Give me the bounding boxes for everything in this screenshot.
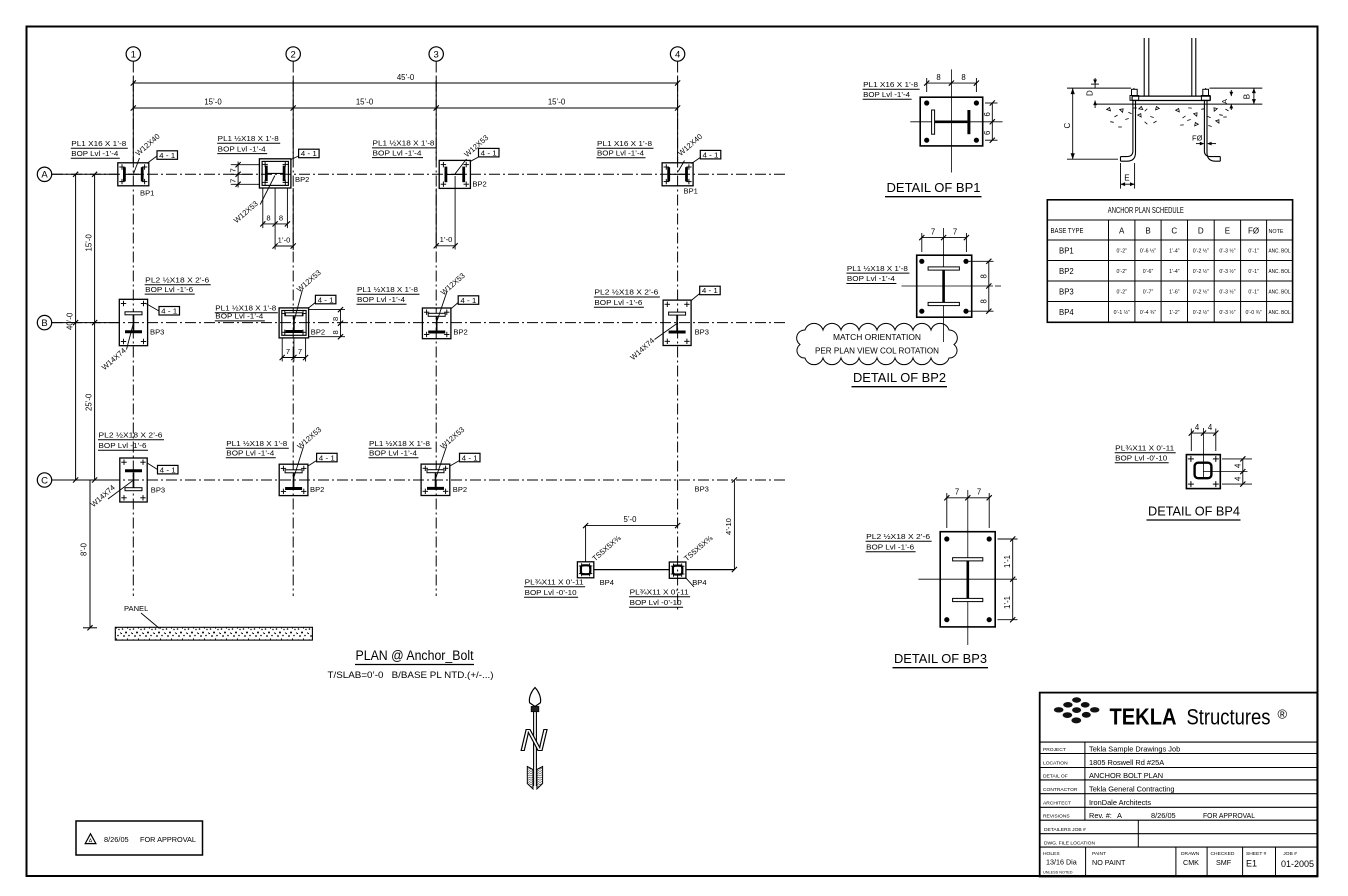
- svg-text:0’-6”: 0’-6”: [1143, 269, 1154, 275]
- label PANEL: [124, 604, 160, 629]
- svg-text:C: C: [41, 475, 48, 486]
- svg-text:0’-1”: 0’-1”: [1248, 269, 1259, 275]
- label W14X74 at B4: [628, 324, 677, 363]
- svg-text:DETAIL OF BP1: DETAIL OF BP1: [887, 180, 981, 195]
- svg-text:4’-10: 4’-10: [724, 518, 733, 535]
- grid line 4: [677, 62, 679, 613]
- svg-text:MATCH ORIENTATION: MATCH ORIENTATION: [833, 333, 921, 342]
- title PLAN @ Anchor_Bolt: [355, 648, 474, 665]
- svg-text:NO PAINT: NO PAINT: [1092, 858, 1126, 867]
- svg-text:E: E: [1225, 227, 1230, 236]
- detail BP1 anchor bolts: [924, 100, 979, 142]
- svg-text:8: 8: [979, 299, 988, 303]
- grid line 3: [435, 62, 437, 597]
- svg-text:FØ: FØ: [1248, 227, 1259, 236]
- svg-text:BP1: BP1: [140, 189, 154, 198]
- label W12X53 at B2: [294, 268, 323, 320]
- svg-text:A: A: [1119, 227, 1125, 236]
- label W12X53 at C2: [294, 425, 324, 477]
- svg-text:7: 7: [286, 347, 290, 356]
- dimension 1'-0 below A3: [434, 176, 458, 250]
- title block cell JOB # 01-2005: [1281, 851, 1314, 869]
- label PL1 X16 X 1'-8 at A1: [71, 139, 128, 158]
- svg-text:Rev. #:: Rev. #:: [1089, 811, 1112, 820]
- label PL1 1/2X18 X 1'-8 at C2: [226, 439, 289, 458]
- svg-text:Structures: Structures: [1187, 705, 1271, 730]
- svg-text:PANEL: PANEL: [124, 604, 148, 613]
- title block row CONTRACTOR: [1043, 784, 1174, 793]
- dimension 15'-0 (A-B): [85, 172, 98, 326]
- label TS5X5X3/8 right: [682, 533, 715, 563]
- svg-text:0’-3 ½”: 0’-3 ½”: [1219, 248, 1235, 255]
- base plate BP2 at A3: [439, 160, 487, 188]
- svg-text:PL2 ½X18 X 2’-6: PL2 ½X18 X 2’-6: [99, 431, 163, 440]
- svg-text:1’-2”: 1’-2”: [1169, 310, 1180, 316]
- grid line A: [52, 173, 787, 175]
- panel hatch strip: [115, 627, 312, 640]
- callout 4-1 at B2: [308, 295, 336, 308]
- svg-text:0’-7”: 0’-7”: [1143, 290, 1154, 296]
- detail BP1 label PL1 X16 X 1'-8: [863, 80, 920, 99]
- label TS5X5X3/8 left: [590, 533, 623, 563]
- label W12X53 at A2: [232, 176, 275, 226]
- elevation right anchor bolt: [1201, 88, 1220, 161]
- svg-text:4: 4: [1195, 423, 1200, 432]
- svg-text:15’-0: 15’-0: [204, 98, 222, 107]
- label PL2 1/2X18 X 2'-6 at B4: [594, 288, 660, 308]
- svg-text:4 - 1: 4 - 1: [160, 465, 176, 474]
- callout 4-1 at A1: [147, 151, 178, 164]
- svg-text:8: 8: [331, 330, 340, 334]
- callout 4-1 at B1: [145, 303, 180, 316]
- svg-text:DETAIL OF BP2: DETAIL OF BP2: [853, 370, 946, 385]
- detail BP3 centerlines: [967, 490, 969, 645]
- label PL1 X16 X 1'-8 at A4: [597, 139, 654, 158]
- detail BP4 dimension 4 4: [1189, 423, 1219, 451]
- elevation concrete line: [1096, 103, 1262, 105]
- svg-text:BP2: BP2: [453, 327, 467, 336]
- svg-text:CMK: CMK: [1183, 858, 1199, 867]
- detail BP4 plate: [1186, 455, 1220, 489]
- detail BP3 label PL2 1/2X18 X 2'-6: [866, 532, 932, 552]
- svg-text:N: N: [520, 723, 548, 758]
- label PL1 1/2X18 X 1'-8 at C3: [369, 439, 432, 458]
- svg-text:7: 7: [977, 488, 981, 497]
- svg-text:6: 6: [983, 112, 992, 116]
- label PL1 1/2X18 X 1'-8 at A2: [217, 134, 280, 154]
- svg-text:JOB #: JOB #: [1283, 851, 1297, 857]
- svg-text:B: B: [1145, 227, 1150, 236]
- grid bubble A: [37, 167, 51, 181]
- svg-text:B: B: [1243, 94, 1252, 99]
- svg-text:FØ: FØ: [1192, 134, 1203, 143]
- svg-text:FOR APPROVAL: FOR APPROVAL: [1203, 811, 1255, 820]
- svg-text:BP2: BP2: [453, 485, 467, 494]
- svg-text:8: 8: [331, 317, 340, 321]
- svg-text:PL¾X11 X 0’-11: PL¾X11 X 0’-11: [1115, 443, 1174, 452]
- svg-text:0’-3 ½”: 0’-3 ½”: [1219, 289, 1235, 296]
- svg-text:BOP Lvl -1’-4: BOP Lvl -1’-4: [215, 312, 263, 321]
- elevation concrete hatch marks: [1107, 106, 1229, 127]
- label PL3/4X11 X 0'-11 right BP4: [629, 588, 690, 608]
- svg-text:BP3: BP3: [151, 486, 165, 495]
- label PL3/4X11 X 0'-11 left BP4: [524, 578, 585, 598]
- svg-text:8: 8: [266, 214, 270, 223]
- svg-text:B: B: [41, 318, 47, 329]
- svg-text:DRAWN: DRAWN: [1181, 851, 1200, 857]
- svg-text:ARCHITECT: ARCHITECT: [1043, 800, 1071, 806]
- grid line B: [52, 322, 787, 324]
- title block row LOCATION: [1043, 758, 1164, 767]
- svg-text:IronDale Architects: IronDale Architects: [1089, 798, 1151, 807]
- svg-text:BOP Lvl -1’-4: BOP Lvl -1’-4: [369, 449, 417, 458]
- elevation top of grout line right: [1210, 87, 1263, 89]
- svg-text:0’-2 ½”: 0’-2 ½”: [1193, 289, 1209, 296]
- detail BP2 anchor bolts: [919, 259, 968, 314]
- label PL2 1/2X18 X 2'-6 at B1: [145, 276, 211, 295]
- svg-text:BOP Lvl -1’-4: BOP Lvl -1’-4: [226, 449, 274, 458]
- label BP4 right: [686, 578, 706, 587]
- grid line 2: [292, 62, 294, 597]
- label PL2 1/2X18 X 2'-6 at C1: [98, 431, 164, 451]
- svg-text:BP3: BP3: [695, 327, 709, 336]
- schedule row BP4: [1059, 308, 1291, 317]
- svg-text:0’-2 ½”: 0’-2 ½”: [1193, 309, 1209, 316]
- svg-text:40’-0: 40’-0: [66, 312, 75, 330]
- grid bubble 3: [429, 47, 443, 61]
- svg-text:DETAIL OF BP3: DETAIL OF BP3: [894, 651, 987, 666]
- detail BP2 title: [852, 370, 948, 387]
- title block cell SHEET # E1: [1246, 851, 1267, 869]
- svg-text:PLAN @ Anchor_Bolt: PLAN @ Anchor_Bolt: [356, 648, 474, 663]
- svg-text:PL1 X16 X 1’-8: PL1 X16 X 1’-8: [71, 139, 126, 148]
- Tekla logo: [1054, 697, 1100, 723]
- detail BP3 plate: [940, 532, 995, 627]
- title block cell DRAWN CMK: [1181, 851, 1200, 867]
- svg-text:BOP Lvl -0’-10: BOP Lvl -0’-10: [630, 598, 682, 607]
- svg-text:7: 7: [955, 488, 959, 497]
- svg-text:6: 6: [983, 131, 992, 135]
- svg-text:0’-2”: 0’-2”: [1117, 290, 1128, 296]
- svg-text:7: 7: [931, 227, 935, 236]
- svg-text:PL2 ½X18 X 2’-6: PL2 ½X18 X 2’-6: [866, 532, 930, 541]
- svg-text:8: 8: [279, 214, 283, 223]
- svg-text:0’-2”: 0’-2”: [1117, 249, 1128, 255]
- svg-text:BP3: BP3: [150, 327, 164, 336]
- callout 4-1 at C2: [308, 453, 337, 466]
- title block cell PAINT: [1092, 851, 1126, 867]
- detail BP1 column section W-beam: [932, 110, 969, 134]
- dimension 7 7 below B2: [280, 338, 309, 362]
- svg-text:A: A: [1117, 811, 1122, 820]
- label W12X40 at A1: [134, 132, 162, 174]
- detail BP4 corner marks: [1188, 456, 1219, 487]
- svg-text:PL1 ½X18 X 1’-8: PL1 ½X18 X 1’-8: [226, 439, 287, 448]
- dimension row 15'-0 / 15'-0 / 15'-0: [131, 98, 681, 111]
- schedule row BP1: [1059, 247, 1291, 256]
- base plate BP1 at A4: [662, 163, 698, 196]
- dimension 4'-10 at C4: [724, 477, 737, 572]
- svg-text:BP3: BP3: [1059, 288, 1074, 297]
- svg-text:7: 7: [298, 347, 302, 356]
- base plate BP3 at B4: [663, 300, 709, 345]
- elevation dimension D: [1086, 78, 1099, 108]
- svg-text:0’-4 ¾”: 0’-4 ¾”: [1140, 310, 1156, 316]
- dimension 45'-0 overall: [131, 73, 681, 86]
- svg-text:D: D: [1198, 227, 1204, 236]
- svg-text:0’-2”: 0’-2”: [1117, 269, 1128, 275]
- elevation dimension A: [1220, 90, 1233, 110]
- wire solid extension segments on grid lines: [133, 77, 677, 250]
- svg-text:D: D: [1086, 90, 1095, 96]
- grid bubble C: [37, 473, 51, 487]
- svg-text:8: 8: [979, 274, 988, 278]
- callout 4-1 at C3: [450, 453, 480, 466]
- svg-text:8: 8: [961, 73, 965, 82]
- svg-text:NOTE: NOTE: [1269, 229, 1284, 235]
- elevation column flanges: [1143, 38, 1145, 96]
- svg-text:PL1 ½X18 X 1’-8: PL1 ½X18 X 1’-8: [218, 134, 279, 143]
- base plate BP4 left: [577, 562, 593, 578]
- label W12X40 at A4: [676, 132, 704, 172]
- svg-text:8/26/05: 8/26/05: [1151, 811, 1176, 820]
- svg-text:1’-4”: 1’-4”: [1169, 249, 1180, 255]
- svg-text:CHECKED: CHECKED: [1211, 851, 1235, 857]
- wire solid extension segments on grid rows: [52, 174, 120, 480]
- elevation left anchor bolt: [1121, 88, 1139, 161]
- svg-text:UNLESS NOTED: UNLESS NOTED: [1043, 871, 1073, 875]
- schedule row BP3: [1059, 288, 1291, 297]
- svg-text:8/26/05: 8/26/05: [104, 835, 129, 844]
- svg-text:PL1 ½X18 X 1’-8: PL1 ½X18 X 1’-8: [373, 139, 435, 148]
- svg-text:4: 4: [675, 49, 680, 60]
- base plate BP3 at B1: [119, 299, 164, 345]
- detail BP4 title: [1147, 504, 1241, 521]
- detail BP3 title: [893, 651, 989, 668]
- svg-text:1’-1: 1’-1: [1003, 596, 1012, 609]
- svg-text:T/SLAB=0’-0 B/BASE PL NTD.(+: T/SLAB=0’-0 B/BASE PL NTD.(+/-...): [328, 670, 494, 680]
- detail BP3 dimension 1'-1 1'-1: [998, 536, 1018, 622]
- svg-text:3: 3: [434, 49, 439, 60]
- svg-text:1’-0: 1’-0: [440, 235, 453, 244]
- svg-text:C: C: [1171, 227, 1177, 236]
- svg-text:1805 Roswell Rd #25A: 1805 Roswell Rd #25A: [1089, 758, 1164, 767]
- svg-text:15’-0: 15’-0: [85, 233, 94, 251]
- dimension 25'-0 (B-C): [85, 323, 98, 483]
- svg-text:5’-0: 5’-0: [623, 515, 637, 524]
- label W12X53 at A3: [455, 133, 490, 174]
- svg-text:4 - 1: 4 - 1: [460, 296, 476, 305]
- dimension 8'-0 (C-panel): [80, 480, 98, 630]
- svg-text:0’-2 ½”: 0’-2 ½”: [1193, 248, 1209, 255]
- svg-text:PL1 ½X18 X 1’-8: PL1 ½X18 X 1’-8: [357, 285, 418, 294]
- svg-text:ANC. BOL: ANC. BOL: [1269, 310, 1291, 316]
- svg-text:4: 4: [1233, 476, 1242, 481]
- detail BP1 dimension 8 8: [924, 73, 979, 92]
- wire beam line between BP4 plates: [594, 569, 670, 571]
- detail BP4 HSS tube section: [1195, 463, 1212, 479]
- elevation dimension F diameter: [1192, 134, 1216, 146]
- grid bubble 2: [286, 47, 300, 61]
- callout 4-1 at B3: [451, 296, 479, 309]
- svg-text:SHEET #: SHEET #: [1246, 851, 1267, 857]
- revision note box 8/26/05 FOR APPROVAL: [76, 821, 203, 855]
- svg-text:4 - 1: 4 - 1: [159, 151, 175, 160]
- svg-text:1’-1: 1’-1: [1003, 555, 1012, 568]
- svg-text:C: C: [1063, 123, 1072, 129]
- grid bubble 4: [670, 47, 684, 61]
- svg-text:4 - 1: 4 - 1: [462, 453, 478, 462]
- detail BP2 label PL1 1/2X18 X 1'-8: [846, 264, 909, 284]
- svg-text:BP2: BP2: [472, 180, 486, 189]
- dimension 8 8 right of B2: [309, 307, 345, 339]
- svg-text:4 - 1: 4 - 1: [318, 295, 334, 304]
- callout 4-1 at C1: [147, 463, 178, 474]
- svg-text:A: A: [89, 839, 93, 845]
- svg-text:BOP Lvl -0’-10: BOP Lvl -0’-10: [1115, 453, 1167, 462]
- svg-text:1’-4”: 1’-4”: [1169, 269, 1180, 275]
- detail BP3 anchor bolts: [944, 536, 992, 622]
- svg-text:PL2 ½X18 X 2’-6: PL2 ½X18 X 2’-6: [145, 276, 209, 285]
- svg-text:4 - 1: 4 - 1: [702, 286, 718, 295]
- callout 4-1 at B4: [691, 286, 720, 300]
- base plate BP2 at A2: [259, 159, 309, 188]
- svg-text:BOP Lvl -1’-4: BOP Lvl -1’-4: [597, 149, 644, 158]
- svg-text:REVISIONS: REVISIONS: [1043, 814, 1070, 820]
- elevation dimension B: [1243, 88, 1256, 104]
- svg-text:BP4: BP4: [1059, 308, 1074, 317]
- svg-text:BP1: BP1: [1059, 247, 1074, 256]
- base plate BP2 at B3: [422, 308, 467, 339]
- svg-text:BP2: BP2: [1059, 267, 1074, 276]
- detail BP2 plate: [917, 255, 972, 317]
- svg-text:Tekla General Contracting: Tekla General Contracting: [1089, 784, 1174, 793]
- svg-text:BOP Lvl -1’-6: BOP Lvl -1’-6: [866, 543, 914, 552]
- svg-text:BP4: BP4: [692, 578, 706, 587]
- title block row DETAILERS JOB #: [1044, 827, 1086, 833]
- elevation top of grout line left: [1067, 87, 1131, 89]
- title block cell HOLES: [1043, 851, 1077, 875]
- svg-text:8’-0: 8’-0: [80, 542, 89, 556]
- anchor plan schedule table: [1047, 200, 1292, 322]
- dimension 7 7 left of A2: [229, 162, 260, 188]
- title block row DETAIL OF: [1043, 771, 1163, 780]
- svg-text:BOP Lvl -1’-4: BOP Lvl -1’-4: [71, 149, 118, 158]
- svg-text:4 - 1: 4 - 1: [703, 150, 719, 159]
- svg-text:01-2005: 01-2005: [1281, 859, 1314, 869]
- grid bubble B: [37, 315, 51, 329]
- svg-text:BP2: BP2: [295, 175, 309, 184]
- svg-text:4 - 1: 4 - 1: [301, 149, 317, 158]
- detail BP1 plate: [920, 97, 983, 146]
- svg-text:BOP Lvl -1’-4: BOP Lvl -1’-4: [863, 90, 910, 99]
- svg-text:ANCHOR BOLT PLAN: ANCHOR BOLT PLAN: [1089, 771, 1163, 780]
- svg-text:0’-1”: 0’-1”: [1248, 249, 1259, 255]
- svg-text:0’-6 ½”: 0’-6 ½”: [1140, 248, 1156, 255]
- detail BP3 column section W-beam: [953, 558, 983, 602]
- svg-text:1’-6”: 1’-6”: [1169, 290, 1180, 296]
- svg-text:HOLES: HOLES: [1043, 851, 1060, 857]
- svg-text:0’-3 ½”: 0’-3 ½”: [1219, 309, 1235, 316]
- svg-text:FOR APPROVAL: FOR APPROVAL: [140, 835, 196, 844]
- dimension 8 8 below A2: [260, 188, 290, 228]
- svg-text:1: 1: [131, 49, 136, 60]
- svg-text:BOP Lvl -1’-4: BOP Lvl -1’-4: [373, 148, 422, 157]
- svg-text:0’-1”: 0’-1”: [1248, 290, 1259, 296]
- svg-text:Tekla Sample Drawings Job: Tekla Sample Drawings Job: [1089, 744, 1180, 753]
- svg-text:45’-0: 45’-0: [397, 73, 415, 82]
- svg-text:E1: E1: [1246, 858, 1257, 868]
- title block row DWG. FILE LOCATION: [1044, 840, 1095, 846]
- svg-text:0’-1 ½”: 0’-1 ½”: [1114, 309, 1130, 316]
- svg-text:0’-0 ¾”: 0’-0 ¾”: [1246, 310, 1262, 316]
- svg-text:BOP Lvl -1’-6: BOP Lvl -1’-6: [99, 441, 147, 450]
- detail BP4 centerlines: [1203, 428, 1205, 478]
- detail BP2 centerlines: [943, 228, 945, 342]
- title block frame: [1040, 693, 1318, 877]
- svg-text:7: 7: [229, 179, 238, 183]
- grid line C: [52, 479, 787, 481]
- label W12X53 at C3: [436, 425, 466, 477]
- dimension 40'-0 overall (A-C): [66, 172, 79, 483]
- base plate BP3 at C1: [120, 458, 165, 502]
- svg-text:®: ®: [1278, 707, 1288, 722]
- elevation dimension E: [1121, 163, 1135, 189]
- label W12X53 at B3: [437, 271, 467, 321]
- svg-text:E: E: [1124, 174, 1129, 183]
- base plate BP4 right: [669, 562, 686, 578]
- svg-text:13/16 Dia: 13/16 Dia: [1046, 858, 1077, 867]
- base plate BP1 at A1: [118, 163, 155, 198]
- label PL1 1/2X18 X 1'-8 at B3: [357, 285, 420, 304]
- title block row PROJECT: [1043, 744, 1180, 753]
- svg-text:ANC. BOL: ANC. BOL: [1269, 269, 1291, 275]
- svg-text:DETAILERS JOB #: DETAILERS JOB #: [1044, 827, 1086, 833]
- label W14X74 at C1: [89, 481, 133, 509]
- svg-text:25’-0: 25’-0: [85, 393, 94, 411]
- title block row REVISIONS: [1043, 811, 1255, 820]
- svg-text:15’-0: 15’-0: [356, 98, 374, 107]
- base plate BP2 at B2: [279, 308, 325, 338]
- north arrow: [520, 688, 548, 790]
- svg-text:BP3: BP3: [695, 485, 709, 494]
- title block cell CHECKED SMF: [1211, 851, 1235, 867]
- svg-text:PL2 ½X18 X 2’-6: PL2 ½X18 X 2’-6: [594, 288, 658, 297]
- svg-text:8: 8: [936, 73, 940, 82]
- svg-text:TEKLA: TEKLA: [1110, 704, 1177, 730]
- grid line 1: [132, 62, 134, 597]
- callout 4-1 at A2: [291, 149, 319, 159]
- label W14X74 at B1: [100, 324, 133, 373]
- detail BP4 label PL3/4X11 X 0'-11: [1115, 443, 1176, 462]
- Tekla Structures wordmark: [1110, 704, 1288, 730]
- svg-text:DETAIL OF: DETAIL OF: [1043, 773, 1068, 779]
- svg-text:BOP Lvl -1’-4: BOP Lvl -1’-4: [847, 274, 895, 283]
- callout 4-1 at A4: [692, 150, 721, 163]
- svg-text:BOP Lvl -1’-6: BOP Lvl -1’-6: [145, 285, 193, 294]
- svg-text:DWG. FILE LOCATION: DWG. FILE LOCATION: [1044, 840, 1095, 846]
- svg-text:PL1 ½X18 X 1’-8: PL1 ½X18 X 1’-8: [847, 264, 908, 273]
- svg-text:4: 4: [1208, 423, 1213, 432]
- svg-text:LOCATION: LOCATION: [1043, 760, 1068, 766]
- svg-text:PL¾X11 X 0’-11: PL¾X11 X 0’-11: [525, 578, 584, 587]
- elevation dimension C: [1063, 88, 1118, 159]
- svg-text:CONTRACTOR: CONTRACTOR: [1043, 787, 1078, 793]
- svg-text:BP1: BP1: [684, 187, 698, 196]
- svg-text:DETAIL OF BP4: DETAIL OF BP4: [1148, 504, 1240, 519]
- callout 4-1 at A3: [470, 148, 499, 161]
- title block row ARCHITECT: [1043, 798, 1151, 807]
